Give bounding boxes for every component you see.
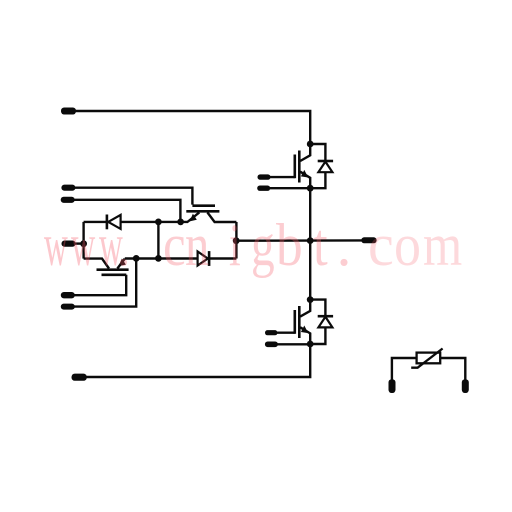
terminal T2 (thermistor pin right) (462, 379, 469, 393)
node B (80, 240, 87, 247)
wire left vertical B (82, 222, 84, 259)
transistor Q2 (rotated IGBT, gate on top) gate bar (192, 204, 215, 207)
wire G2 to Q2 gate (74, 188, 192, 205)
transistor Q1 collector lead (300, 144, 310, 161)
terminal T1 (thermistor pin left) (389, 379, 396, 393)
terminal P1 (top-left DC+ pin) (61, 108, 76, 115)
transistor Q2 body bar (186, 210, 219, 213)
node output-left junction (233, 237, 240, 244)
node output (307, 237, 314, 244)
node emitter E4 (307, 341, 314, 348)
transistor Q2 emitter lead (187, 212, 199, 222)
node emitter E1 (307, 185, 314, 192)
wire P3 to node B (74, 242, 84, 244)
transistor Q3 gate bar (102, 273, 127, 276)
wire Q3 gate lead (74, 275, 126, 295)
terminal OUT (phase output pin) (361, 237, 376, 243)
diode D3 (left-pointing) triangle (108, 215, 120, 229)
terminal G1 (Q1 gate pin) (258, 174, 271, 179)
wire Q4 gate (276, 332, 295, 334)
transistor Q1 emitter arrow (301, 170, 308, 178)
wire D4 branch (310, 300, 325, 344)
diode D2 (right-pointing) triangle (198, 252, 208, 266)
transistor Q4 (lower IGBT) gate bar (293, 310, 296, 334)
terminal E1 (Q1 aux emitter pin) (257, 186, 270, 191)
transistor Q2 emitter arrow (190, 214, 197, 222)
wire right vertical (Q2 collector to bottom rail) (235, 222, 237, 259)
diode D1 (upper freewheel) triangle (318, 162, 332, 173)
thermistor RT1 diagonal strike (411, 349, 442, 368)
diode D3 cathode bar (106, 215, 109, 230)
diode D2 cathode bar (208, 251, 211, 266)
terminal G2 (upper-left control pin 1) (61, 185, 75, 191)
transistor Q3 emitter arrow (119, 259, 126, 267)
wire output rail (236, 239, 362, 242)
terminal E4 (Q4 aux emitter pin) (265, 342, 278, 348)
thermistor RT1 body (417, 353, 441, 364)
node C (top rail junction) (155, 219, 162, 226)
wire Q4 aux emitter (277, 343, 311, 345)
diode D4 cathode bar (318, 315, 333, 318)
wire trunk E4 to bottom rail (85, 344, 310, 377)
transistor Q3 (rotated IGBT, gate below) body bar (97, 268, 129, 271)
transistor Q3 emitter lead (117, 259, 124, 269)
watermark www.cnigbt.com (44, 215, 68, 275)
wire Q1 aux emitter (269, 187, 310, 189)
wire top rail from P1 to upper IGBT collector (74, 111, 310, 144)
transistor Q3 collector lead (84, 259, 109, 269)
terminal G4 (Q4 gate pin) (265, 330, 277, 335)
transistor Q2 collector lead (207, 212, 236, 222)
transistor Q4 collector lead (300, 300, 310, 317)
terminal E3 (Q3 aux emitter pin) (61, 304, 75, 310)
terminal P3 (left middle pin) (62, 241, 76, 247)
wire top mid rail (84, 221, 188, 223)
transistor Q1 body bar (298, 151, 301, 183)
wire E2 to node A (73, 200, 180, 222)
node A (top rail junction right) (177, 219, 184, 226)
wire mid vertical C-D (157, 222, 159, 259)
terminal P2 (bottom-left DC- pin) (72, 374, 87, 381)
diode D1 cathode bar (318, 160, 333, 163)
node D (bottom rail junction) (155, 255, 162, 262)
wire D1 branch (310, 144, 325, 188)
node E (bottom rail junction left) (133, 255, 140, 262)
wire Q1 gate (269, 176, 295, 178)
transistor Q1 emitter lead (300, 172, 310, 189)
diode D4 (lower freewheel) triangle (318, 317, 332, 328)
wire bottom mid rail (125, 257, 237, 259)
transistor Q4 emitter lead (300, 327, 310, 344)
wire trunk output to Q4 collector (309, 241, 311, 300)
terminal G3 (Q3 gate pin) (61, 292, 75, 298)
node collector C4 (307, 296, 314, 303)
wire Q3 aux emitter lead (74, 258, 136, 306)
transistor Q1 (upper IGBT) gate bar (293, 155, 296, 179)
thermistor RT1 leads (392, 358, 417, 380)
wire phase trunk C1-output (309, 188, 311, 240)
terminal E2 (upper-left control pin 2) (61, 197, 75, 203)
transistor Q4 emitter arrow (301, 326, 308, 334)
transistor Q4 body bar (298, 306, 301, 338)
node collector C1 (307, 141, 314, 148)
